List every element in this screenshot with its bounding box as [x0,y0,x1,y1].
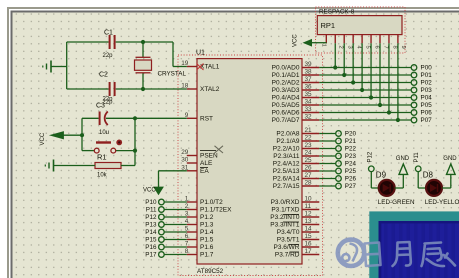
svg-text:PSEN: PSEN [200,153,218,160]
svg-text:P15: P15 [145,237,157,244]
svg-text:P03: P03 [421,87,433,94]
svg-text:P3.3/INT1: P3.3/INT1 [270,222,300,229]
svg-text:R1: R1 [97,153,107,162]
svg-text:EA: EA [200,168,209,175]
svg-text:P3.4/T0: P3.4/T0 [277,229,300,236]
svg-text:35: 35 [305,91,313,98]
svg-text:RESPACK-8: RESPACK-8 [319,9,355,16]
svg-text:P05: P05 [421,102,433,109]
svg-text:P0.6/AD6: P0.6/AD6 [272,110,300,117]
svg-text:P0.3/AD3: P0.3/AD3 [272,87,300,94]
svg-text:P3.6/WR: P3.6/WR [273,244,299,251]
svg-text:10u: 10u [99,130,109,136]
svg-text:P1.6: P1.6 [200,244,214,251]
svg-text:21: 21 [305,127,313,134]
svg-text:P12: P12 [145,214,157,221]
svg-text:P10: P10 [145,199,157,206]
svg-text:D8: D8 [423,171,434,180]
svg-text:30: 30 [181,157,189,164]
svg-text:12: 12 [305,211,313,218]
svg-text:P3.2/INT0: P3.2/INT0 [270,214,300,221]
svg-text:22p: 22p [103,53,114,59]
svg-text:11: 11 [305,203,312,210]
svg-text:RP1: RP1 [321,21,336,30]
svg-text:P3.0/RXD: P3.0/RXD [271,199,300,206]
svg-text:GND: GND [443,156,457,162]
svg-text:P1.0/T2: P1.0/T2 [200,199,223,206]
svg-text:6: 6 [373,46,379,49]
svg-text:28: 28 [305,180,313,187]
svg-text:P1.3: P1.3 [200,222,214,229]
svg-text:24: 24 [305,150,313,157]
svg-text:P1.2: P1.2 [200,214,214,221]
svg-text:P26: P26 [345,176,357,183]
svg-text:P2.7/A15: P2.7/A15 [273,183,300,190]
svg-text:P22: P22 [345,146,357,153]
svg-text:38: 38 [305,69,313,76]
svg-text:34: 34 [305,99,313,106]
svg-text:P3.1/TXD: P3.1/TXD [271,207,299,214]
svg-text:P16: P16 [145,244,157,251]
svg-text:33: 33 [305,106,313,113]
svg-text:39: 39 [305,61,313,68]
svg-text:RST: RST [200,116,213,123]
svg-text:P17: P17 [145,252,157,259]
svg-text:37: 37 [305,76,313,83]
svg-text:P2.2/A10: P2.2/A10 [273,146,300,153]
svg-text:2: 2 [338,46,344,49]
svg-text:AT89C52: AT89C52 [197,268,224,275]
svg-text:10k: 10k [97,173,108,179]
svg-text:P0.2/AD2: P0.2/AD2 [272,80,300,87]
svg-text:P0.1/AD1: P0.1/AD1 [272,72,300,79]
svg-text:P12: P12 [367,151,373,162]
svg-text:9: 9 [400,46,406,49]
svg-text:GND: GND [396,156,410,162]
svg-text:23: 23 [305,142,313,149]
svg-text:C2: C2 [99,72,108,79]
svg-text:P23: P23 [345,153,357,160]
svg-text:36: 36 [305,84,313,91]
svg-text:P11: P11 [146,207,157,214]
svg-text:14: 14 [305,226,313,233]
svg-text:P2.4/A12: P2.4/A12 [273,161,300,168]
svg-text:16: 16 [305,241,313,248]
svg-text:P3.7/RD: P3.7/RD [275,252,300,259]
svg-text:P27: P27 [345,183,357,190]
svg-text:P1.4: P1.4 [200,229,214,236]
svg-text:P0.4/AD4: P0.4/AD4 [272,95,300,102]
svg-text:P3.5/T1: P3.5/T1 [277,237,300,244]
svg-text:29: 29 [181,149,189,156]
svg-text:32: 32 [305,114,313,121]
svg-text:P1.5: P1.5 [200,237,214,244]
svg-text:27: 27 [305,172,313,179]
svg-text:P06: P06 [421,110,433,117]
svg-text:C1: C1 [104,30,113,37]
svg-text:P25: P25 [345,168,357,175]
svg-text:P11: P11 [414,152,420,163]
svg-text:P0.0/AD0: P0.0/AD0 [272,65,300,72]
svg-text:15: 15 [305,233,313,240]
svg-text:P14: P14 [145,229,157,236]
svg-text:P01: P01 [421,72,433,79]
svg-text:D9: D9 [376,171,387,180]
svg-text:P2.0/A8: P2.0/A8 [276,131,300,138]
svg-text:VCC: VCC [293,34,299,47]
svg-text:ALE: ALE [200,160,213,167]
svg-text:13: 13 [305,218,313,225]
svg-text:P1.1/T2EX: P1.1/T2EX [200,207,232,214]
svg-text:10: 10 [305,196,313,203]
svg-text:LED-YELLOW: LED-YELLOW [425,199,459,206]
svg-text:8: 8 [391,46,397,49]
svg-text:7: 7 [382,46,388,49]
svg-text:P20: P20 [345,131,357,138]
svg-text:P13: P13 [145,222,157,229]
svg-text:XTAL2: XTAL2 [200,86,220,93]
svg-text:P21: P21 [345,138,357,145]
svg-text:P00: P00 [421,65,433,72]
svg-text:5: 5 [364,46,370,49]
svg-text:17: 17 [305,248,313,255]
svg-text:25: 25 [305,157,313,164]
svg-text:P04: P04 [421,95,433,102]
svg-text:P24: P24 [345,161,357,168]
svg-text:1: 1 [321,44,327,47]
svg-text:22: 22 [305,135,313,142]
svg-text:P0.7/AD7: P0.7/AD7 [272,117,300,124]
svg-text:LED-GREEN: LED-GREEN [378,199,415,206]
svg-text:P07: P07 [421,117,433,124]
svg-text:P2.5/A13: P2.5/A13 [273,168,300,175]
svg-text:CRYSTAL: CRYSTAL [158,71,187,78]
svg-text:P2.1/A9: P2.1/A9 [276,138,300,145]
svg-text:P2.6/A14: P2.6/A14 [273,176,300,183]
svg-text:U1: U1 [196,50,205,57]
svg-text:26: 26 [305,165,313,172]
svg-text:P1.7: P1.7 [200,252,214,259]
svg-text:VCC: VCC [40,132,46,145]
svg-text:C3: C3 [96,103,105,110]
svg-text:VCC: VCC [143,188,156,194]
svg-text:P2.3/A11: P2.3/A11 [273,153,300,160]
svg-text:P0.5/AD5: P0.5/AD5 [272,102,300,109]
svg-text:3: 3 [347,46,353,49]
svg-text:22p: 22p [103,97,114,103]
svg-text:P02: P02 [421,80,433,87]
